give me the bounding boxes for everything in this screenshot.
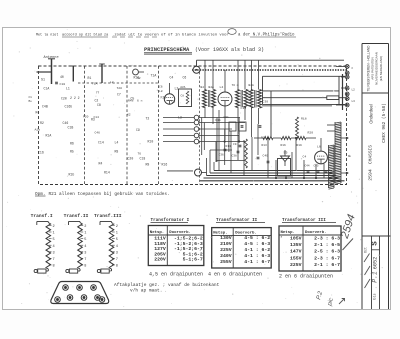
svg-text:C16: C16: [38, 151, 44, 155]
svg-text:R21 alleen toepassen bij gebru: R21 alleen toepassen bij gebruik van tor…: [49, 192, 170, 197]
output tube V4: [315, 151, 328, 164]
svg-text:F20: F20: [83, 115, 89, 118]
bottom resistor: [79, 269, 81, 271]
S-box 6052: [373, 257, 379, 269]
svg-text:X2: X2: [127, 114, 131, 117]
svg-text:S2: S2: [137, 77, 141, 80]
bus wires: [214, 170, 332, 172]
svg-text:3: 3: [53, 251, 55, 255]
svg-text:210V: 210V: [220, 241, 232, 247]
svg-text:4: 4: [53, 245, 55, 249]
svg-text:4,5 en draaipunten: 4,5 en draaipunten: [149, 271, 203, 277]
shield dashed horizontal: [78, 82, 158, 84]
svg-text:R4: R4: [36, 110, 40, 114]
svg-text:R1b: R1b: [69, 172, 75, 176]
terminal fan column: [194, 115, 199, 120]
svg-text:R13: R13: [262, 144, 267, 147]
svg-text:R20: R20: [308, 131, 314, 135]
svg-text:(Voor 196XX als blad 3): (Voor 196XX als blad 3): [195, 47, 264, 53]
IF transformer T1: [203, 90, 207, 108]
svg-text:Transf.III: Transf.III: [94, 213, 122, 219]
capacitor C10: [55, 81, 58, 83]
svg-text:R1A: R1A: [46, 134, 52, 138]
svg-text:1: 1: [116, 232, 118, 236]
coil lead 2: [72, 66, 74, 82]
sidebar CHASSIS: [367, 145, 373, 164]
svg-text:4-1 : 6-3: 4-1 : 6-3: [244, 253, 270, 259]
svg-text:R16: R16: [162, 163, 168, 167]
svg-text:R16: R16: [281, 144, 286, 147]
svg-text:76 m: 76 m: [232, 84, 239, 87]
resistor R17: [327, 96, 339, 100]
svg-text:C10: C10: [60, 82, 66, 86]
svg-text:C46: C46: [63, 121, 69, 125]
winding taps: [341, 137, 349, 139]
svg-text:7: 7: [116, 258, 118, 262]
chassis dotted: [192, 69, 347, 71]
svg-text:118V: 118V: [154, 241, 166, 247]
svg-text:Nk: Nk: [348, 154, 352, 158]
svg-text:111V: 111V: [154, 236, 166, 242]
svg-text:C4B: C4B: [42, 104, 48, 108]
divider dashed x84: [83, 66, 85, 185]
svg-text:4-1 : 6-7: 4-1 : 6-7: [244, 259, 270, 265]
terminals right: [345, 65, 349, 69]
jack S2: [133, 69, 139, 75]
svg-text:R11: R11: [216, 119, 221, 122]
connector hole 8: [99, 297, 105, 303]
svg-text:L2: L2: [110, 81, 114, 84]
circled mark: [228, 29, 236, 35]
svg-text:1: 1: [84, 232, 86, 236]
svg-text:R14: R14: [104, 171, 110, 175]
svg-text:8: 8: [84, 265, 86, 269]
svg-text:7: 7: [53, 258, 55, 262]
svg-text:205V: 205V: [154, 251, 166, 257]
resistor chain: [263, 136, 273, 139]
svg-text:240V: 240V: [220, 253, 232, 259]
svg-text:C8: C8: [97, 103, 101, 107]
svg-text:C6: C6: [183, 76, 187, 80]
EM box: [278, 159, 291, 177]
svg-text:B4: B4: [201, 86, 205, 89]
svg-text:(EN NEDERLAND): (EN NEDERLAND): [379, 56, 383, 82]
tube V1: [218, 92, 232, 106]
stamp box rule: [362, 92, 389, 94]
svg-text:L3: L3: [352, 100, 356, 103]
svg-text:5: 5: [84, 238, 86, 242]
S-box top rule: [362, 235, 391, 237]
wire mid: [262, 105, 332, 107]
choke R18: [296, 117, 299, 138]
coil lead 3: [101, 64, 103, 83]
svg-text:PRINCIPESCHEMA: PRINCIPESCHEMA: [144, 47, 190, 53]
svg-text:Netsp.: Netsp.: [150, 231, 164, 235]
svg-text:720: 720: [117, 87, 123, 90]
sidebar top rule: [362, 43, 389, 45]
svg-text:2: 2: [84, 225, 86, 229]
extra density wires: [216, 160, 244, 162]
svg-text:5: 5: [116, 238, 118, 242]
svg-text:Netsp.: Netsp.: [281, 231, 295, 235]
svg-text:-1;5-2;6-2: -1;5-2;6-2: [174, 236, 203, 242]
svg-text:R14: R14: [226, 145, 231, 148]
svg-text:C9: C9: [233, 143, 237, 146]
svg-text:225V: 225V: [290, 262, 302, 268]
svg-text:Onderdeel: Onderdeel: [368, 104, 373, 124]
S-box S: [372, 241, 380, 246]
divider dashed x158: [158, 66, 160, 185]
svg-text:C6: C6: [159, 86, 163, 89]
handwritten stroke: [343, 239, 354, 251]
svg-text:C20: C20: [128, 157, 134, 161]
svg-text:CHASSIS: CHASSIS: [367, 145, 373, 164]
svg-text:L6: L6: [317, 145, 321, 149]
svg-text:7: 7: [84, 258, 86, 262]
svg-text:*: *: [280, 236, 283, 241]
svg-text:C2: C2: [95, 99, 99, 103]
svg-text:130V: 130V: [220, 235, 232, 241]
bus terminal: [195, 169, 202, 176]
svg-text:T6: T6: [138, 153, 142, 156]
winding coil: [78, 223, 83, 270]
IF transformer T3: [249, 90, 253, 109]
wire: [37, 71, 52, 73]
svg-text:C7: C7: [117, 93, 121, 97]
bottom resistor: [47, 269, 49, 271]
svg-text:R9: R9: [146, 163, 150, 167]
svg-text:135V: 135V: [290, 242, 302, 248]
svg-text:C40: C40: [263, 154, 269, 158]
svg-text:C30: C30: [241, 106, 247, 110]
sidebar 2594: [367, 169, 373, 181]
svg-text:.zodat uit te voeren of of in: .zodat uit te voeren of of in blanco inv…: [112, 32, 229, 37]
svg-text:6 n: 6 n: [137, 99, 143, 102]
svg-text:C46: C46: [95, 132, 101, 135]
svg-text:6052: 6052: [373, 257, 379, 269]
svg-text:P.1: P.1: [372, 271, 379, 283]
svg-text:C1: C1: [29, 96, 33, 99]
connector hole 3: [91, 285, 97, 291]
capacitors: [224, 148, 227, 150]
IF transformer T2: [236, 90, 240, 108]
schematic dashed border: [39, 66, 347, 185]
svg-text:R5: R5: [70, 150, 74, 154]
output transformer: [334, 122, 336, 183]
svg-text:2-1 : 6-5: 2-1 : 6-5: [314, 242, 340, 248]
svg-text:bis: bis: [372, 293, 377, 299]
svg-text:2-3 : 6-7: 2-3 : 6-7: [314, 255, 340, 261]
sidebar left rule: [361, 44, 363, 310]
choke small: [245, 139, 248, 168]
svg-text:255V: 255V: [220, 259, 232, 265]
svg-text:4 en 6 draaipunten: 4 en 6 draaipunten: [208, 271, 262, 277]
svg-text:105V: 105V: [290, 235, 302, 241]
svg-text:R4b: R4b: [128, 98, 134, 102]
svg-text:225V: 225V: [220, 247, 232, 253]
svg-text:Netsp.: Netsp.: [213, 232, 227, 236]
svg-text:Doorverb.: Doorverb.: [169, 230, 191, 235]
bus caps: [307, 170, 310, 172]
svg-text:2: 2: [53, 225, 55, 229]
Oct label: [364, 247, 368, 253]
wire low: [167, 170, 193, 172]
svg-text:T2: T2: [146, 117, 150, 121]
svg-text:T1A: T1A: [92, 83, 98, 86]
svg-text:R10: R10: [148, 140, 154, 144]
sidebar Onderdeel: [368, 104, 373, 124]
S-box verticals: [371, 236, 373, 309]
svg-text:Transf.II: Transf.II: [64, 213, 89, 219]
svg-text:L2: L2: [175, 87, 179, 91]
svg-text:8: 8: [53, 265, 55, 269]
svg-text:4: 4: [84, 245, 86, 249]
caps band: [241, 125, 244, 127]
svg-text:Me: Me: [29, 100, 33, 103]
svg-text:AVA: AVA: [180, 86, 185, 89]
boxes mid: [229, 122, 236, 131]
svg-text:L4: L4: [220, 85, 224, 89]
svg-text:Met la niet: Met la niet: [36, 32, 58, 37]
svg-text:C30: C30: [263, 100, 269, 104]
svg-text:220V: 220V: [154, 257, 166, 263]
connector hole 7: [55, 297, 61, 303]
svg-text:R18: R18: [301, 117, 307, 121]
svg-text:8: 8: [116, 265, 118, 269]
bottom resistor: [111, 269, 113, 271]
top wire: [197, 59, 345, 61]
svg-text:R4: R4: [99, 162, 103, 166]
svg-text:2-1 : 6-7: 2-1 : 6-7: [314, 262, 340, 268]
svg-text:Oct: Oct: [364, 247, 368, 253]
svg-text:C1B: C1B: [68, 126, 74, 130]
bus feeds: [275, 160, 277, 178]
antenna lead: [51, 59, 53, 84]
svg-text:5-1;6-2: 5-1;6-2: [183, 251, 203, 257]
svg-text:C4: C4: [303, 155, 307, 159]
right edge stubs: [336, 66, 345, 68]
svg-text:A1a: A1a: [35, 129, 41, 132]
svg-text:C44: C44: [305, 165, 310, 168]
svg-text:B4A: B4A: [209, 86, 214, 89]
svg-text:-1;5-2;6-7: -1;5-2;6-7: [174, 246, 203, 252]
svg-text:2 en 6 draaipunten: 2 en 6 draaipunten: [279, 274, 333, 280]
svg-text:R6: R6: [70, 142, 74, 146]
connector plug: [51, 282, 109, 304]
top lead: [69, 221, 81, 223]
connector hole 5: [81, 295, 87, 301]
svg-text:C14: C14: [98, 141, 104, 145]
svg-text:4-5 : 6-3: 4-5 : 6-3: [244, 241, 270, 247]
svg-text:5: 5: [53, 238, 55, 242]
svg-text:S1: S1: [41, 78, 45, 82]
svg-text:C8: C8: [181, 95, 185, 98]
svg-text:Transf.I: Transf.I: [31, 213, 53, 219]
svg-text:4-1 : 6-2: 4-1 : 6-2: [244, 247, 270, 253]
svg-text:C31: C31: [224, 116, 229, 119]
svg-text:2-3 : 6-3: 2-3 : 6-3: [314, 235, 340, 241]
svg-text:R1: R1: [88, 76, 92, 80]
svg-text:40: 40: [60, 75, 64, 79]
tube B3: [164, 94, 174, 104]
svg-text:B4A: B4A: [249, 84, 254, 87]
svg-text:CHEX 962 (5-58): CHEX 962 (5-58): [382, 103, 387, 143]
ladder verticals: [201, 118, 203, 156]
svg-text:C4: C4: [170, 76, 174, 80]
svg-text:L4: L4: [115, 141, 119, 145]
svg-text:C16b: C16b: [65, 104, 73, 108]
svg-text:147V: 147V: [290, 249, 302, 255]
svg-text:R19: R19: [297, 144, 302, 147]
sidebar right rule: [388, 44, 390, 310]
sidebar slashes: [364, 254, 370, 263]
svg-text:2594: 2594: [367, 169, 373, 181]
svg-text:L8: L8: [159, 90, 163, 93]
svg-text:S: S: [372, 241, 380, 246]
svg-text:C18: C18: [140, 157, 146, 161]
svg-text:R8: R8: [115, 150, 119, 154]
svg-text:C9: C9: [136, 128, 140, 132]
svg-text:155V: 155V: [290, 255, 302, 261]
winding coil: [109, 223, 114, 270]
svg-text:-1;5-2;6-3: -1;5-2;6-3: [174, 241, 203, 247]
svg-text:127V: 127V: [154, 246, 166, 252]
connector hole 1: [63, 285, 69, 291]
svg-text:C1A: C1A: [44, 87, 50, 91]
svg-text:2: 2: [116, 225, 118, 229]
svg-text:4-5 : 6-2: 4-5 : 6-2: [244, 235, 270, 241]
svg-text:C36: C36: [219, 154, 224, 157]
svg-text:2-5 : 6-3: 2-5 : 6-3: [314, 249, 340, 255]
connector hole 6: [95, 295, 101, 301]
detector nested box wires: [263, 75, 346, 77]
svg-text:3: 3: [84, 251, 86, 255]
junction circle: [193, 66, 200, 73]
sidebar CHEX: [382, 103, 387, 143]
svg-text:T1A: T1A: [151, 74, 157, 78]
S-box P1: [372, 271, 379, 283]
svg-text:C38: C38: [232, 155, 237, 158]
svg-text:L1: L1: [66, 87, 70, 91]
svg-text:L5: L5: [284, 151, 288, 155]
svg-text:a der N.V.Philips'Radio: a der N.V.Philips'Radio: [238, 32, 295, 37]
svg-text:C14: C14: [94, 116, 100, 119]
svg-text:1: 1: [53, 232, 55, 236]
handwritten arrow: [339, 299, 345, 305]
svg-text:Doorverb.: Doorverb.: [235, 231, 257, 236]
svg-text:77: 77: [96, 92, 100, 95]
svg-text:C20: C20: [61, 97, 67, 101]
top lead: [100, 221, 112, 223]
svg-text:v/h ap maat.: v/h ap maat.: [130, 287, 162, 293]
svg-text:Aftakplaatje gez. ; vanaf de b: Aftakplaatje gez. ; vanaf de buitenkant: [114, 282, 220, 288]
svg-text:accoord op dit blad za: accoord op dit blad za: [62, 32, 108, 37]
connector hole 2: [77, 285, 83, 291]
S-box bis: [372, 293, 377, 299]
svg-text:3: 3: [116, 251, 118, 255]
shielded box C8: [179, 89, 192, 107]
divider dashed x127: [126, 66, 128, 185]
connector hole 4: [67, 295, 73, 301]
stamp text: [366, 45, 383, 92]
svg-text:2 2 2: 2 2 2: [70, 96, 80, 100]
svg-text:Doorverb.: Doorverb.: [305, 230, 327, 235]
svg-text:5-1;6-7: 5-1;6-7: [183, 257, 203, 263]
svg-text:R2: R2: [40, 121, 44, 125]
divider dashed x199: [199, 72, 201, 185]
svg-text:L2: L2: [352, 89, 356, 92]
paper speckle: [6, 29, 382, 307]
svg-text:4: 4: [116, 245, 118, 249]
vertical drops: [218, 110, 220, 171]
winding coil: [46, 223, 51, 270]
top lead: [37, 221, 49, 223]
